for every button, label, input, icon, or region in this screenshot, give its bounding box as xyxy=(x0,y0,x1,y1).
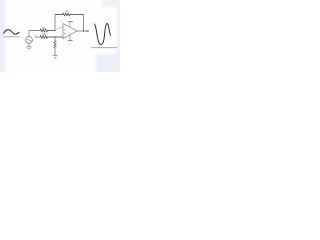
ground (source) xyxy=(26,47,32,51)
minus sign xyxy=(64,29,65,31)
top-right pale region xyxy=(102,0,122,7)
feedback left vertical wire xyxy=(54,15,56,31)
wire source top to R1 xyxy=(29,31,40,37)
input waveform baseline xyxy=(4,36,21,38)
wire source bottom to ground xyxy=(28,43,30,46)
resistor RF (feedback) with wires xyxy=(55,13,84,16)
node: inverting junction dot xyxy=(54,30,55,31)
positive supply pin xyxy=(69,22,71,27)
output waveform baseline xyxy=(91,47,117,49)
ground (noninverting) xyxy=(53,55,58,59)
negative supply rail bar xyxy=(68,39,73,41)
pin label speck xyxy=(61,21,62,22)
node: noninverting junction dot xyxy=(54,36,55,37)
background page xyxy=(0,0,120,72)
svg-text:RF: RF xyxy=(65,10,69,13)
wire lower line left stub xyxy=(35,36,40,38)
input waveform vin (small sine) xyxy=(4,30,19,34)
right pale margin xyxy=(117,0,123,74)
positive supply rail bar xyxy=(68,21,73,23)
resistor R2 (lower input resistor) xyxy=(40,36,63,39)
node: output junction dot xyxy=(83,30,84,31)
AC source VS circle xyxy=(26,37,33,44)
op-amp U1 triangle xyxy=(63,24,77,39)
AC source tilde xyxy=(27,39,31,40)
output waveform vout (large inverted sine) xyxy=(95,23,111,44)
feedback right vertical wire xyxy=(83,15,85,32)
bottom-right pale region xyxy=(96,54,122,74)
wire junction to inverting input xyxy=(55,28,63,31)
output wire xyxy=(77,30,87,32)
negative supply pin xyxy=(69,35,71,40)
output terminal circle xyxy=(87,30,89,32)
plus sign xyxy=(64,33,65,34)
resistor R3 (to ground, vertical) xyxy=(54,37,56,55)
interior faint marks xyxy=(67,30,69,33)
left pale margin xyxy=(0,0,5,74)
resistor R1 (top input resistor) xyxy=(40,29,55,32)
